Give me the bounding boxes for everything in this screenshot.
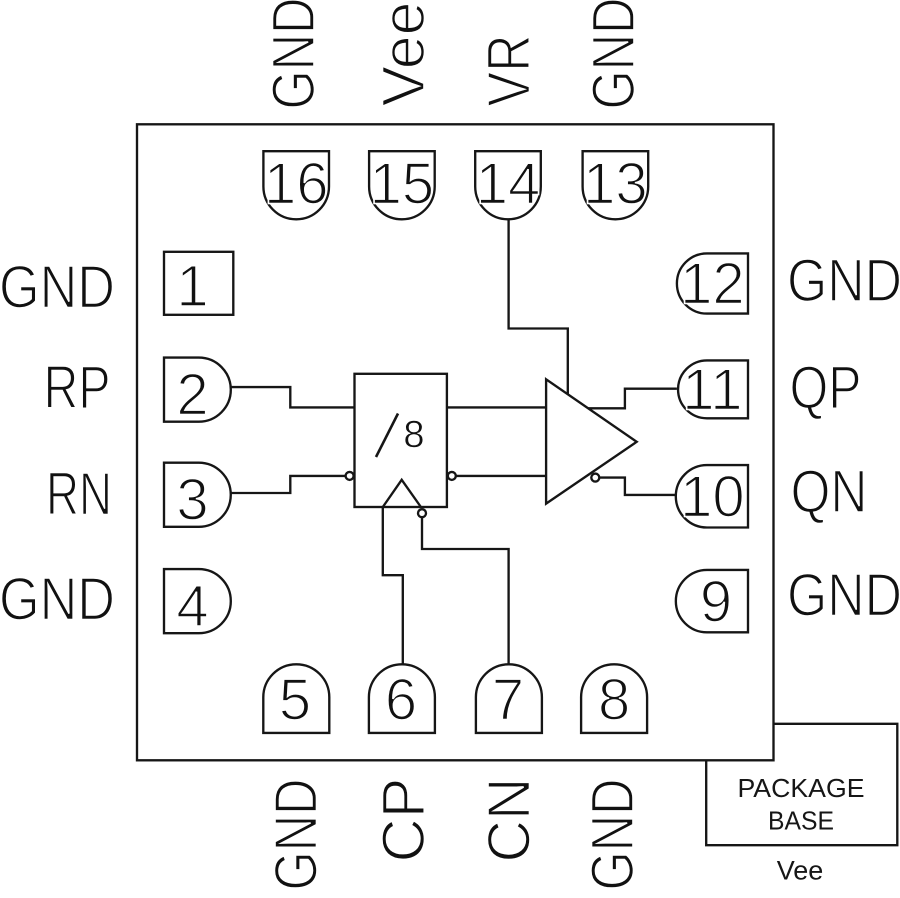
bubble buffer U2 inverted output bbox=[591, 474, 599, 482]
svg-text:CN: CN bbox=[475, 778, 542, 863]
svg-text:6: 6 bbox=[385, 668, 417, 733]
pin 4 bbox=[164, 569, 231, 633]
pin 1 bbox=[164, 252, 233, 315]
package outline bbox=[137, 124, 774, 760]
pin 2 bbox=[164, 358, 231, 422]
pin 9 bbox=[676, 570, 748, 632]
svg-text:GND: GND bbox=[580, 0, 647, 110]
pin 13 bbox=[583, 151, 649, 219]
pin 10 bbox=[676, 465, 748, 527]
bubble divider U1 inverted clock bbox=[418, 509, 426, 517]
pin 6 bbox=[369, 664, 435, 733]
pin 14 bbox=[475, 151, 541, 219]
svg-text:5: 5 bbox=[279, 668, 311, 733]
svg-text:Vee: Vee bbox=[777, 855, 824, 885]
wire pin7 CN to divider U1 inverted clock bbox=[422, 517, 509, 664]
svg-text:14: 14 bbox=[476, 152, 541, 217]
wire pin6 CP to divider U1 clock bbox=[383, 507, 403, 665]
svg-text:8: 8 bbox=[403, 414, 424, 456]
pin 12 bbox=[677, 253, 748, 313]
svg-text:GND: GND bbox=[787, 247, 900, 314]
svg-text:GND: GND bbox=[0, 254, 115, 321]
svg-text:1: 1 bbox=[176, 254, 208, 319]
svg-text:11: 11 bbox=[682, 357, 742, 422]
svg-text:RP: RP bbox=[44, 354, 111, 421]
svg-text:GND: GND bbox=[579, 779, 646, 891]
pin 11 bbox=[678, 360, 748, 418]
svg-text:BASE: BASE bbox=[768, 807, 834, 835]
svg-text:8: 8 bbox=[598, 668, 630, 733]
wire pin2 RP to divider U1 input bbox=[231, 387, 355, 407]
svg-text:PACKAGE: PACKAGE bbox=[738, 775, 865, 803]
wire divider U1 inverted out to buffer U2 bbox=[456, 475, 546, 477]
divider U1 slash bbox=[376, 414, 398, 458]
svg-text:3: 3 bbox=[176, 468, 208, 533]
svg-text:15: 15 bbox=[370, 152, 435, 217]
pin 8 bbox=[581, 664, 647, 733]
wire buffer U2 out to pin11 QP bbox=[588, 389, 677, 409]
svg-text:CP: CP bbox=[370, 778, 437, 863]
svg-text:9: 9 bbox=[700, 570, 732, 635]
wire divider U1 out to buffer U2 bbox=[447, 406, 546, 408]
svg-text:Vee: Vee bbox=[370, 2, 437, 107]
pin 7 bbox=[476, 664, 542, 733]
svg-text:VR: VR bbox=[475, 35, 542, 107]
svg-text:10: 10 bbox=[680, 464, 745, 529]
svg-text:16: 16 bbox=[264, 152, 329, 217]
svg-text:2: 2 bbox=[176, 363, 208, 428]
package base box bbox=[706, 724, 897, 845]
divider U1 clock triangle bbox=[383, 480, 421, 507]
divider U1 box bbox=[355, 374, 447, 507]
svg-text:GND: GND bbox=[260, 0, 327, 110]
svg-text:12: 12 bbox=[680, 252, 745, 317]
pin 3 bbox=[164, 463, 231, 527]
buffer U2 triangle bbox=[546, 379, 637, 503]
svg-text:QP: QP bbox=[790, 354, 862, 421]
bubble divider U1 input RN bbox=[346, 472, 354, 480]
pin 15 bbox=[369, 151, 435, 219]
svg-text:QN: QN bbox=[791, 458, 868, 525]
svg-text:RN: RN bbox=[46, 461, 112, 528]
svg-text:GND: GND bbox=[787, 561, 900, 628]
wire buffer U2 inverted out to pin10 QN bbox=[599, 478, 677, 495]
pin 16 bbox=[263, 151, 329, 219]
svg-text:GND: GND bbox=[263, 779, 330, 891]
bubble divider U1 inverted output bbox=[448, 472, 456, 480]
svg-text:4: 4 bbox=[176, 574, 208, 639]
svg-text:13: 13 bbox=[583, 152, 648, 217]
pin 5 bbox=[263, 664, 329, 733]
wire pin3 RN to divider U1 inverted input bbox=[231, 476, 346, 493]
svg-text:7: 7 bbox=[492, 668, 524, 733]
svg-text:GND: GND bbox=[0, 565, 115, 632]
wire pin14 VR to buffer U2 bbox=[509, 219, 568, 394]
label PACKAGE BASE bbox=[738, 775, 865, 836]
